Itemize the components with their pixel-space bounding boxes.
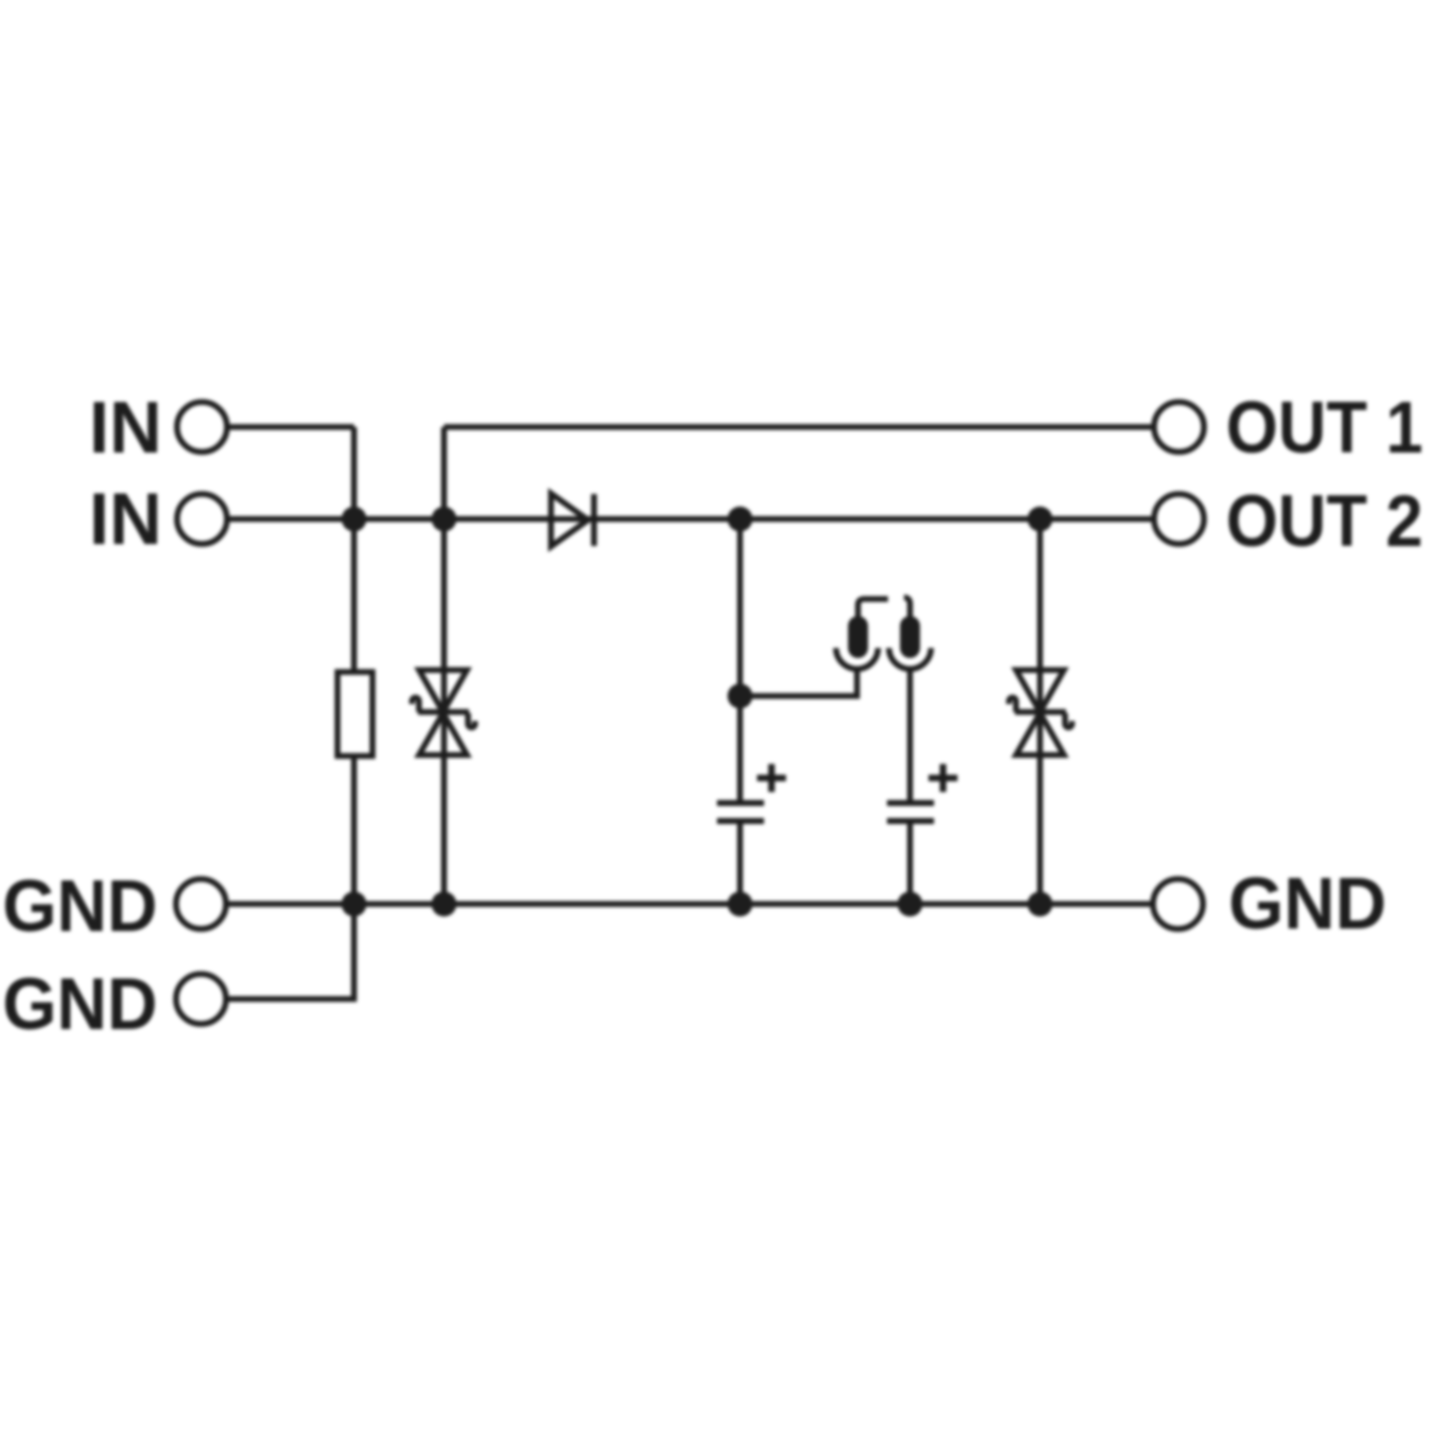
wire IN1 to top-left corner node <box>229 424 354 430</box>
wire GND bus <box>228 901 1152 907</box>
junction GND bus at TVS2 column <box>1028 892 1053 917</box>
wire C2 branch lower <box>907 821 913 904</box>
svg-text:IN: IN <box>89 479 162 560</box>
wire C1 branch upper <box>737 519 743 803</box>
wire vertical input branch (node A column x=354) <box>351 427 357 904</box>
plug contact X2 (right disconnect plug) <box>889 598 931 670</box>
junction GND bus at C2 column <box>898 892 923 917</box>
terminal GND right <box>1153 879 1203 929</box>
terminal IN 2 <box>177 494 227 544</box>
capacitor C2 (polarized) <box>887 803 934 821</box>
wire vertical TVS1 branch x=444 <box>441 427 447 904</box>
wire vertical TVS2 branch x=1040 <box>1037 519 1043 904</box>
svg-text:OUT 1: OUT 1 <box>1226 388 1423 469</box>
wire C1 branch lower <box>737 821 743 904</box>
wire OUT1 horizontal net <box>444 424 1152 430</box>
wire IN2 / OUT2 horizontal net <box>229 516 1152 522</box>
suppressor diode V1 (bidirectional TVS) <box>412 670 475 755</box>
wire GND2 lead up to GND bus <box>228 904 354 999</box>
terminal OUT 2 <box>1154 494 1204 544</box>
suppressor diode V2 (bidirectional TVS) <box>1009 670 1072 755</box>
polarity + of C1 <box>757 764 786 792</box>
svg-text:OUT 2: OUT 2 <box>1226 481 1423 562</box>
capacitor C1 (polarized) <box>717 803 764 821</box>
junction GND bus at input column <box>342 892 367 917</box>
junction node at TVS2 column on OUT2 net <box>1028 507 1053 532</box>
terminal GND left lower <box>176 974 226 1024</box>
svg-text:GND: GND <box>3 964 158 1045</box>
wire link node B to plug X1 <box>740 668 857 696</box>
terminal GND left upper <box>176 879 226 929</box>
junction GND bus at TVS1 column <box>432 892 457 917</box>
junction node B (C1 column mid link) <box>728 684 753 709</box>
junction GND bus at C1 column <box>728 892 753 917</box>
diode D1 <box>551 494 594 547</box>
terminal OUT 1 <box>1154 402 1204 452</box>
terminal IN 1 <box>177 402 227 452</box>
svg-text:GND: GND <box>1229 864 1387 945</box>
wire plug X2 stem to C2 <box>907 668 913 803</box>
junction node at IN column on OUT2 net <box>342 507 367 532</box>
svg-text:GND: GND <box>3 866 158 947</box>
plug contact X1 (left disconnect plug) <box>836 599 888 669</box>
polarity + of C2 <box>929 764 958 792</box>
svg-text:IN: IN <box>89 388 162 469</box>
junction node at TVS1 column on OUT2 net <box>432 507 457 532</box>
junction node B top (C1 column on OUT2 net) <box>728 507 753 532</box>
resistor R1 <box>338 672 373 756</box>
